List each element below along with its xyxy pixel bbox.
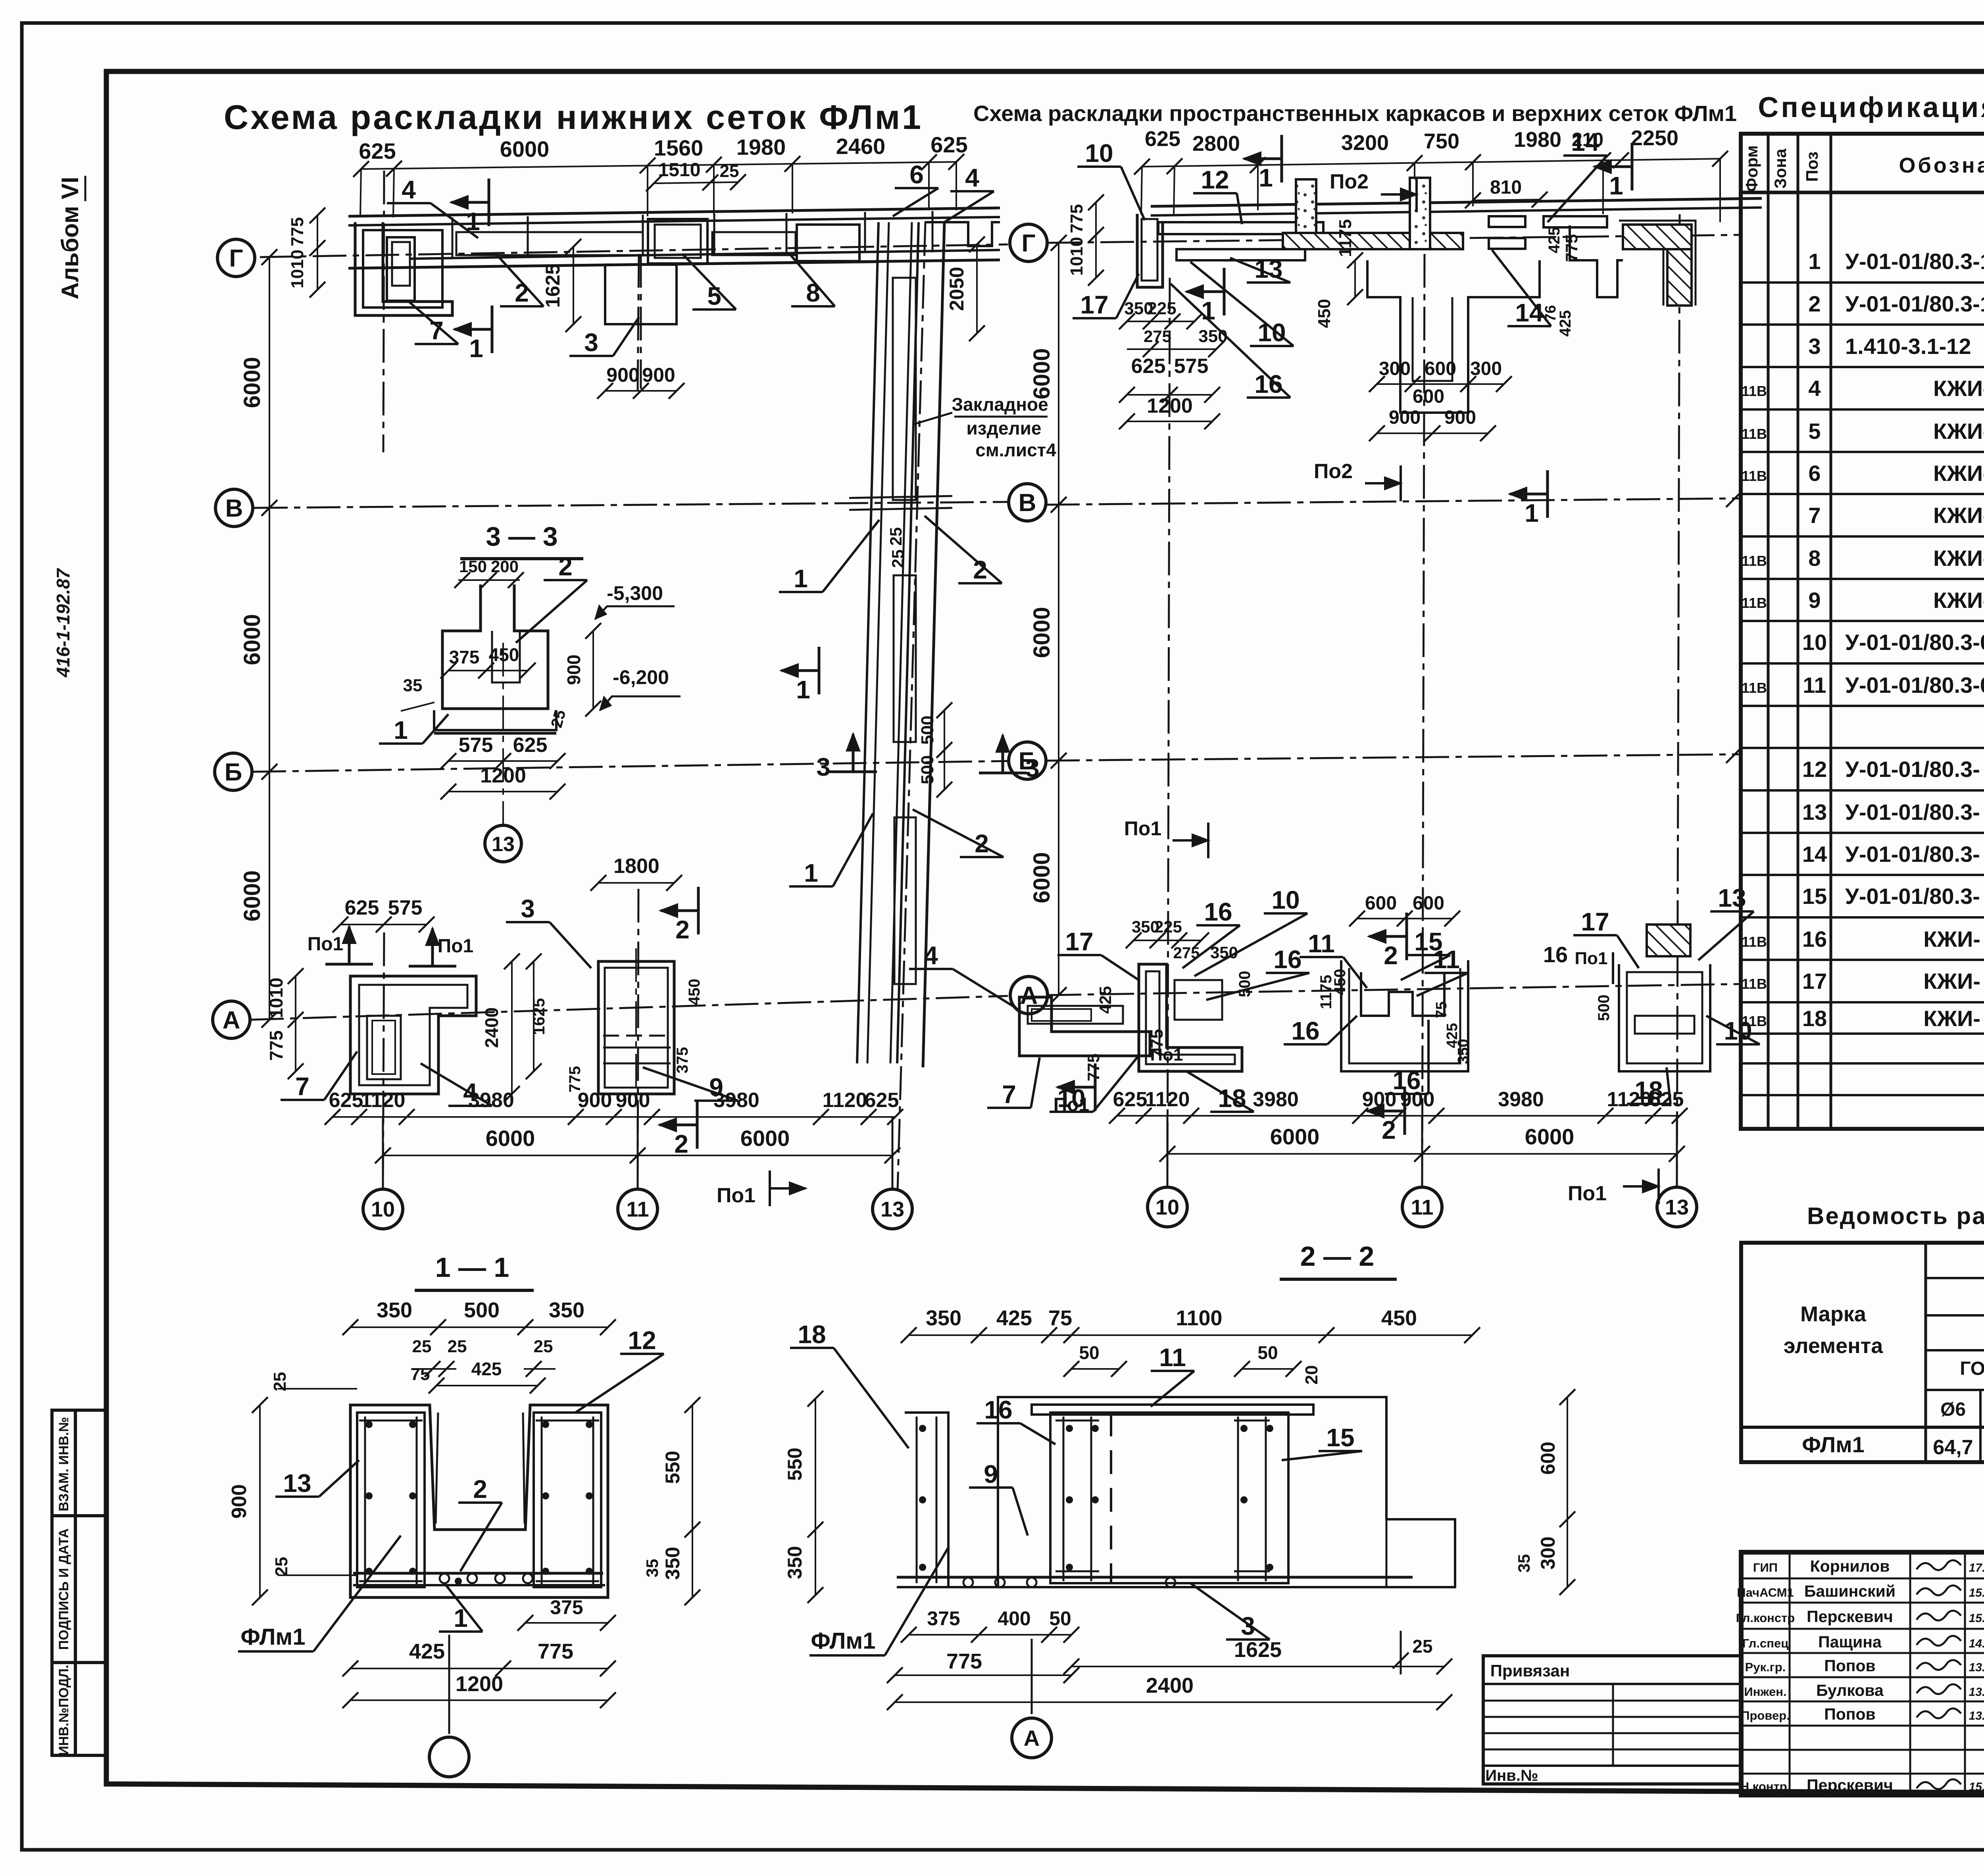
label 10 bottom right mid xyxy=(1716,1043,1760,1046)
label 4 bottom left xyxy=(448,1105,492,1107)
svg-text:3: 3 xyxy=(1808,334,1821,359)
svg-text:ГОСТ 5781 - 82*: ГОСТ 5781 - 82* xyxy=(1960,1358,1984,1379)
svg-text:1: 1 xyxy=(794,564,808,593)
middle bottom left corner detail xyxy=(1139,964,1242,1071)
svg-text:500: 500 xyxy=(918,755,937,784)
svg-text:ФЛм1: ФЛм1 xyxy=(240,1624,305,1650)
section 1-1 left cage xyxy=(357,1413,425,1587)
axis circle B right of left plan xyxy=(1009,742,1046,779)
svg-text:450: 450 xyxy=(1381,1306,1417,1330)
svg-text:3: 3 xyxy=(1025,754,1040,782)
middle plan left corner block xyxy=(1137,214,1163,287)
svg-text:3: 3 xyxy=(521,894,535,923)
svg-text:-6,200: -6,200 xyxy=(613,666,669,688)
svg-text:6000: 6000 xyxy=(1029,852,1055,903)
label 18 bottom right mid xyxy=(1627,1103,1671,1105)
section 1-1 bottom mesh xyxy=(353,1572,603,1575)
axis circle B left xyxy=(215,753,252,790)
svg-text:75: 75 xyxy=(1048,1306,1072,1330)
svg-text:15.10.86: 15.10.86 xyxy=(1969,1612,1984,1625)
svg-text:Г: Г xyxy=(1021,230,1035,257)
svg-text:17: 17 xyxy=(1581,907,1609,936)
label 1 strip upper xyxy=(779,591,823,593)
svg-text:25: 25 xyxy=(720,161,739,181)
svg-text:11В: 11В xyxy=(1742,426,1767,442)
svg-text:350: 350 xyxy=(784,1546,806,1579)
middle plan bar karkas 13 xyxy=(1177,249,1305,260)
left plan vertical strip lines xyxy=(857,222,879,1063)
svg-text:2: 2 xyxy=(674,1130,688,1158)
middle plan axis line G xyxy=(1048,235,1740,243)
middle plan right step outline xyxy=(1570,225,1623,297)
svg-text:500: 500 xyxy=(464,1298,500,1322)
label 12 section 1-1 xyxy=(620,1353,664,1355)
section 2-2 main slab outline xyxy=(998,1397,1455,1587)
svg-text:По2: По2 xyxy=(1314,460,1353,483)
svg-text:КЖИ-НС6: КЖИ-НС6 xyxy=(1933,588,1984,613)
svg-text:35: 35 xyxy=(403,676,423,695)
section 3-3 inner pocket xyxy=(492,631,520,682)
spec table grid xyxy=(1741,134,1984,1129)
label 5 middle block xyxy=(692,308,736,311)
svg-text:6000: 6000 xyxy=(239,357,265,408)
svg-text:9: 9 xyxy=(984,1460,998,1488)
label 6 top right xyxy=(895,187,938,189)
svg-text:500: 500 xyxy=(1595,995,1613,1021)
svg-text:2: 2 xyxy=(558,552,573,581)
label 1 section 3-3 xyxy=(379,742,423,745)
label 16 bottom left mid xyxy=(1196,924,1240,926)
svg-text:изделие: изделие xyxy=(966,418,1041,438)
section 2-2 axis circle A xyxy=(1031,1639,1033,1714)
svg-text:2: 2 xyxy=(975,829,989,858)
svg-text:350: 350 xyxy=(661,1547,684,1580)
svg-text:2800: 2800 xyxy=(1192,132,1240,156)
label 16 section 2-2 xyxy=(977,1422,1020,1424)
section 2-2 left dims 550 350 xyxy=(815,1399,816,1595)
left bottom corner detail 7-4 xyxy=(350,976,476,1094)
left plan strip dims 500 500 xyxy=(944,710,945,790)
svg-text:350: 350 xyxy=(377,1298,412,1322)
svg-text:1560: 1560 xyxy=(654,135,704,160)
svg-text:Пащина: Пащина xyxy=(1818,1633,1882,1651)
svg-text:2: 2 xyxy=(1384,941,1398,970)
left plan middle block 5 xyxy=(648,219,707,263)
label 4 top right corner xyxy=(950,190,994,192)
svg-text:Г: Г xyxy=(229,245,243,272)
svg-text:900: 900 xyxy=(578,1089,612,1112)
svg-text:ФЛм1: ФЛм1 xyxy=(1802,1432,1865,1457)
svg-text:25: 25 xyxy=(448,1337,467,1356)
label 11 center detail xyxy=(1300,956,1343,958)
svg-text:16: 16 xyxy=(984,1395,1012,1424)
label 13 middle plan xyxy=(1247,281,1290,284)
svg-text:13.10.86: 13.10.86 xyxy=(1969,1709,1984,1722)
svg-text:3 — 3: 3 — 3 xyxy=(486,521,558,552)
svg-text:элемента: элемента xyxy=(1784,1334,1883,1358)
section mark 1 middle right xyxy=(1631,143,1634,190)
section 3-3 dims 575 625 xyxy=(448,760,558,762)
section 1-1 left body xyxy=(350,1405,608,1597)
svg-text:450: 450 xyxy=(686,979,703,1005)
title block outer xyxy=(1741,1552,1984,1795)
zakladnoe leader xyxy=(913,413,952,425)
svg-text:ИНВ.№ПОДЛ.: ИНВ.№ПОДЛ. xyxy=(56,1665,71,1756)
middle plan column stub hatched 2 xyxy=(1410,178,1430,249)
svg-text:17: 17 xyxy=(1802,969,1827,994)
svg-text:А: А xyxy=(1024,1726,1040,1751)
svg-text:У-01-01/80.3-100 СБ: У-01-01/80.3-100 СБ xyxy=(1845,291,1984,316)
svg-text:ФЛм1: ФЛм1 xyxy=(811,1628,875,1654)
svg-text:У-01-01/80.3-040 СБ: У-01-01/80.3-040 СБ xyxy=(1845,630,1984,655)
svg-text:1120: 1120 xyxy=(1607,1088,1652,1111)
label 4 top left xyxy=(387,202,431,204)
svg-text:625: 625 xyxy=(865,1089,899,1112)
middle plan dims 300 600 row xyxy=(1377,383,1504,385)
svg-text:7: 7 xyxy=(429,316,444,345)
middle plan bottom 6000 chain xyxy=(1167,1153,1677,1155)
svg-text:А: А xyxy=(223,1007,240,1034)
section 1-1 top dims 350 500 350 xyxy=(350,1326,608,1328)
section 1-1 axis circle xyxy=(448,1635,450,1734)
middle plan axis line A xyxy=(1048,984,1740,995)
svg-text:16: 16 xyxy=(1254,370,1282,398)
svg-text:425: 425 xyxy=(471,1359,502,1379)
svg-text:КЖИ-НС1: КЖИ-НС1 xyxy=(1933,376,1984,401)
dim 1800 above middle square xyxy=(598,882,674,884)
label 15 center detail xyxy=(1407,954,1450,956)
svg-text:350: 350 xyxy=(1455,1039,1472,1064)
column circle 11 left xyxy=(637,1117,639,1188)
left plan dim 1625 rotated xyxy=(573,247,574,324)
svg-text:775: 775 xyxy=(1067,204,1086,233)
svg-text:425: 425 xyxy=(409,1640,445,1663)
svg-text:По1: По1 xyxy=(1124,817,1161,840)
svg-text:6000: 6000 xyxy=(1525,1124,1575,1149)
section 1-1 cage dots xyxy=(365,1421,373,1428)
left plan vertical dim 775 1010 at G xyxy=(317,215,318,290)
svg-text:Попов: Попов xyxy=(1824,1657,1876,1675)
left plan right corner turn xyxy=(925,222,1000,246)
svg-text:2: 2 xyxy=(973,555,987,584)
section 1-1 dim 375 xyxy=(525,1622,608,1624)
middle bottom right corner detail xyxy=(1619,964,1710,1071)
svg-text:8: 8 xyxy=(1808,546,1821,571)
middle plan bottom dim chain xyxy=(1117,1115,1680,1117)
middle plan dims 1175 450 xyxy=(1354,260,1356,297)
svg-text:375: 375 xyxy=(927,1607,960,1630)
svg-text:1100: 1100 xyxy=(1176,1306,1222,1330)
label 14 top right middle xyxy=(1563,154,1607,157)
middle plan bar right xyxy=(1544,216,1607,227)
axis circle A right of left plan xyxy=(1010,976,1048,1014)
svg-text:15: 15 xyxy=(1802,884,1827,909)
svg-text:По1: По1 xyxy=(1568,1182,1607,1205)
label 15 section 2-2 xyxy=(1319,1450,1362,1452)
svg-text:1: 1 xyxy=(394,716,408,744)
svg-text:2: 2 xyxy=(1808,291,1821,316)
svg-text:6: 6 xyxy=(909,160,924,189)
label 2 band xyxy=(500,305,544,308)
svg-text:11В: 11В xyxy=(1742,468,1767,484)
svg-text:3: 3 xyxy=(1241,1612,1255,1640)
svg-text:1175: 1175 xyxy=(1336,219,1355,257)
svg-text:625: 625 xyxy=(1649,1088,1684,1111)
left plan axis line A xyxy=(250,996,1008,1020)
svg-text:1: 1 xyxy=(1201,296,1215,325)
svg-text:900: 900 xyxy=(606,364,639,386)
column circle 11 middle xyxy=(1421,1116,1423,1186)
svg-text:1120: 1120 xyxy=(361,1089,406,1112)
svg-text:425: 425 xyxy=(1546,227,1563,254)
label 2 section 3-3 xyxy=(544,579,587,581)
svg-text:500: 500 xyxy=(918,715,937,744)
svg-text:2250: 2250 xyxy=(1631,126,1678,150)
svg-text:6000: 6000 xyxy=(239,870,265,921)
svg-text:2: 2 xyxy=(473,1475,487,1503)
svg-text:Б: Б xyxy=(225,759,242,786)
section mark 1 middle bottom xyxy=(1546,470,1549,518)
svg-text:25: 25 xyxy=(886,527,905,546)
svg-text:900: 900 xyxy=(228,1484,251,1519)
label 13 bottom right mid xyxy=(1710,910,1754,913)
svg-text:КЖИ-НС5: КЖИ-НС5 xyxy=(1933,546,1984,571)
column circle 10 left xyxy=(382,1117,384,1188)
left plan band mesh rect mid xyxy=(712,232,796,255)
svg-text:10: 10 xyxy=(1257,318,1286,347)
section 2-2 center cage xyxy=(1050,1413,1288,1583)
middle bottom center detail xyxy=(1341,960,1468,1071)
svg-text:900: 900 xyxy=(1362,1088,1397,1111)
svg-text:425: 425 xyxy=(1096,986,1115,1014)
svg-text:Попов: Попов xyxy=(1824,1705,1876,1723)
label 10 middle plan xyxy=(1077,165,1121,168)
svg-text:-5,300: -5,300 xyxy=(607,582,663,604)
privyazan box xyxy=(1483,1656,1741,1784)
svg-text:400: 400 xyxy=(998,1607,1030,1630)
svg-text:16: 16 xyxy=(1204,898,1232,926)
svg-text:225: 225 xyxy=(1147,299,1176,318)
svg-text:2: 2 xyxy=(675,915,690,944)
svg-text:16: 16 xyxy=(1291,1017,1319,1045)
svg-text:Корнилов: Корнилов xyxy=(1810,1557,1890,1575)
svg-text:550: 550 xyxy=(661,1451,684,1484)
svg-text:В: В xyxy=(225,495,243,522)
title block signature rows xyxy=(1741,1578,1984,1580)
svg-text:900: 900 xyxy=(1444,407,1476,428)
svg-text:12: 12 xyxy=(1201,165,1229,194)
svg-text:7: 7 xyxy=(1002,1080,1016,1109)
svg-text:300: 300 xyxy=(1537,1536,1559,1569)
middle plan right corner outer outline xyxy=(1619,221,1696,306)
svg-text:350: 350 xyxy=(926,1306,961,1330)
svg-text:12: 12 xyxy=(628,1326,656,1355)
svg-text:150: 150 xyxy=(459,557,487,576)
section 2-2 top dims xyxy=(909,1334,1472,1336)
svg-text:По1: По1 xyxy=(308,934,344,955)
svg-text:1120: 1120 xyxy=(823,1089,867,1112)
svg-text:1625: 1625 xyxy=(542,263,564,308)
column circle 13 left bottom xyxy=(892,1117,894,1188)
svg-text:11В: 11В xyxy=(1742,595,1767,611)
axis circle G right of left plan xyxy=(1010,224,1047,261)
svg-text:1.410-3.1-12: 1.410-3.1-12 xyxy=(1845,334,1971,359)
svg-text:11: 11 xyxy=(1433,945,1460,974)
svg-text:375: 375 xyxy=(674,1047,691,1074)
svg-text:11В: 11В xyxy=(1742,553,1767,569)
svg-text:3980: 3980 xyxy=(468,1089,514,1112)
svg-text:6000: 6000 xyxy=(486,1126,535,1151)
svg-text:11: 11 xyxy=(1308,929,1335,958)
section 3-3 dim 1200 xyxy=(448,791,558,792)
left plan band mesh rect left xyxy=(456,232,643,255)
svg-text:600: 600 xyxy=(1413,386,1444,407)
svg-text:10: 10 xyxy=(1271,886,1300,914)
svg-text:13: 13 xyxy=(492,833,515,856)
section 2-2 cage dots xyxy=(1066,1425,1073,1432)
svg-text:Ведомость расхода стали на эле: Ведомость расхода стали на элемент, кг xyxy=(1807,1203,1984,1229)
svg-text:625: 625 xyxy=(1113,1088,1148,1111)
svg-text:6000: 6000 xyxy=(239,614,265,665)
section marks 2 center detail xyxy=(1405,913,1408,960)
label 2 strip upper xyxy=(958,582,1002,584)
svg-text:1980: 1980 xyxy=(1514,128,1561,152)
svg-text:2050: 2050 xyxy=(946,267,968,311)
svg-text:2400: 2400 xyxy=(481,1007,502,1048)
svg-text:500: 500 xyxy=(1236,971,1253,998)
label 10 bottom mid xyxy=(1264,912,1307,915)
svg-text:1010: 1010 xyxy=(266,978,286,1018)
svg-text:У-01-01/80.3- 100 СБ: У-01-01/80.3- 100 СБ xyxy=(1845,757,1984,782)
middle plan band top lines xyxy=(1151,198,1762,206)
section 2-2 right step inner line xyxy=(1386,1519,1388,1587)
svg-text:16: 16 xyxy=(1273,945,1302,974)
svg-text:Поз: Поз xyxy=(1803,152,1821,182)
svg-text:300: 300 xyxy=(1379,358,1411,379)
svg-text:11: 11 xyxy=(626,1197,649,1221)
svg-text:1625: 1625 xyxy=(1234,1638,1282,1662)
svg-text:Зона: Зона xyxy=(1771,148,1790,188)
svg-text:1800: 1800 xyxy=(613,855,659,878)
left plan middle inner band rect xyxy=(797,225,859,261)
svg-text:Перскевич: Перскевич xyxy=(1807,1607,1893,1626)
middle plan axis line V xyxy=(1046,498,1740,505)
svg-text:2400: 2400 xyxy=(1146,1674,1194,1697)
middle plan vertical dim 775 1010 at G xyxy=(1095,202,1097,278)
section 2-2 bottom mesh xyxy=(897,1576,1413,1579)
left plan strip centerline xyxy=(898,222,925,1190)
axis circle V right of left plan xyxy=(1009,484,1046,521)
svg-text:Инжен.: Инжен. xyxy=(1744,1685,1786,1699)
svg-text:75: 75 xyxy=(1433,1001,1450,1018)
label 8 band right xyxy=(791,305,835,308)
section 3-3 axis circle 13 xyxy=(502,643,504,825)
label 18 section 2-2 xyxy=(790,1347,834,1349)
svg-text:У-01-01/80.3- 100 СБ: У-01-01/80.3- 100 СБ xyxy=(1845,800,1984,825)
label 3 middle square xyxy=(506,921,550,923)
svg-text:35: 35 xyxy=(1515,1554,1533,1573)
svg-text:20: 20 xyxy=(1302,1365,1321,1385)
section 1-1 trough lines xyxy=(436,1413,438,1524)
section 1-1 right cage xyxy=(534,1413,601,1587)
svg-text:900: 900 xyxy=(642,364,675,386)
axis circle A left xyxy=(213,1001,250,1038)
svg-text:КЖИ-НС3: КЖИ-НС3 xyxy=(1933,461,1984,486)
section 2-2 right dims 600 300 xyxy=(1567,1397,1568,1587)
label 3 square xyxy=(569,355,613,357)
left plan lower square 3 xyxy=(605,265,677,324)
svg-text:Башинский: Башинский xyxy=(1804,1582,1896,1600)
left bottom middle square detail xyxy=(598,961,674,1094)
svg-text:1510: 1510 xyxy=(658,160,701,181)
column circle 13 middle xyxy=(1676,1116,1678,1186)
svg-text:6: 6 xyxy=(1808,461,1821,486)
svg-text:11: 11 xyxy=(1411,1196,1433,1219)
svg-text:3980: 3980 xyxy=(1253,1088,1299,1111)
label 3 section 2-2 xyxy=(1226,1638,1270,1641)
section mark 1 mid xyxy=(491,306,494,353)
svg-text:16: 16 xyxy=(1802,926,1827,951)
middle plan vertical dim 6000 chain xyxy=(1058,243,1059,995)
svg-text:50: 50 xyxy=(1079,1342,1099,1363)
left plan strip inner rects xyxy=(893,278,916,500)
svg-text:13.10.86: 13.10.86 xyxy=(1969,1686,1984,1699)
svg-text:9: 9 xyxy=(1808,588,1821,613)
svg-text:25: 25 xyxy=(1412,1636,1432,1657)
svg-text:350: 350 xyxy=(549,1298,584,1322)
left plan axis 11 centerline top xyxy=(638,254,639,391)
section 2-2 left fragment dots xyxy=(919,1425,926,1432)
svg-text:600: 600 xyxy=(1413,893,1444,914)
label 7 left corner xyxy=(415,343,458,345)
svg-text:11: 11 xyxy=(1803,673,1826,698)
label 9 middle square xyxy=(694,1099,738,1102)
left plan top sub dims 1510 25 xyxy=(654,182,738,183)
left plan top chain extensions xyxy=(360,169,361,216)
left plan axis line V xyxy=(254,502,1008,508)
svg-text:1: 1 xyxy=(1525,499,1539,527)
svg-text:13: 13 xyxy=(283,1469,311,1497)
label 1 section 1-1 xyxy=(439,1630,483,1633)
label 7 bottom right corner xyxy=(987,1107,1031,1109)
section 2-2 dashed bar xyxy=(1110,1413,1112,1583)
label 9 section 2-2 xyxy=(969,1486,1013,1489)
section 3-3 body xyxy=(442,584,548,709)
svg-text:У-01-01/80.3-100 СБ: У-01-01/80.3-100 СБ xyxy=(1845,249,1984,274)
left vertical dimension 6000 chain xyxy=(269,257,270,1020)
svg-text:900: 900 xyxy=(1389,407,1421,428)
steel table grid xyxy=(1741,1243,1984,1462)
svg-text:625: 625 xyxy=(345,896,379,919)
svg-text:3: 3 xyxy=(816,753,831,781)
label 18 bottom left mid xyxy=(1210,1111,1254,1113)
label 16 center detail xyxy=(1284,1043,1327,1046)
middle plan right hatched corner horizontal xyxy=(1623,225,1692,249)
label 7 bottom left xyxy=(281,1099,324,1101)
left plan dims 900 900 under square xyxy=(605,390,677,392)
left corner inner rects xyxy=(387,237,415,301)
svg-text:см.лист4: см.лист4 xyxy=(975,440,1056,460)
svg-text:1200: 1200 xyxy=(1147,394,1193,417)
left plan axis line B xyxy=(252,761,1008,772)
left plan foundation band top lines xyxy=(348,208,1000,216)
svg-text:7: 7 xyxy=(1808,503,1821,528)
label 4 bottom right corner xyxy=(909,968,953,970)
svg-text:575: 575 xyxy=(1174,355,1209,378)
left plan band lower outline xyxy=(452,265,605,267)
svg-text:НачАСМ1: НачАСМ1 xyxy=(1737,1586,1794,1599)
svg-text:КЖИ-НС4: КЖИ-НС4 xyxy=(1933,503,1984,528)
